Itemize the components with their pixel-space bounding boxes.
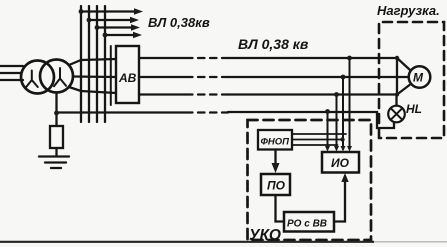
svg-text:РО с ВВ: РО с ВВ [287,219,327,230]
svg-text:ВЛ 0,38кв: ВЛ 0,38кв [148,15,210,30]
svg-text:ВЛ 0,38 кв: ВЛ 0,38 кв [238,36,309,52]
svg-text:М: М [413,71,424,85]
svg-text:ФНОП: ФНОП [261,137,290,148]
svg-text:ИО: ИО [331,156,350,170]
svg-text:HL: HL [406,102,422,116]
svg-text:АВ: АВ [118,71,137,85]
svg-text:Нагрузка.: Нагрузка. [377,3,440,18]
svg-text:УКО: УКО [249,227,281,244]
svg-text:ПО: ПО [267,179,286,193]
